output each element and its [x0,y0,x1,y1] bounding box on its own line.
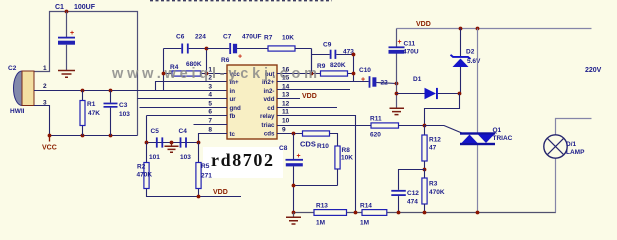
svg-text:+: + [398,39,402,46]
svg-text:Q1: Q1 [493,127,502,134]
resistor R7 [264,35,312,74]
svg-text:22: 22 [381,80,389,87]
svg-text:R14: R14 [360,203,372,210]
svg-text:470U: 470U [403,49,419,56]
svg-text:+: + [361,77,365,84]
svg-text:47: 47 [429,145,437,152]
svg-text:C10: C10 [359,67,371,74]
wire R4/C6 left vertical [163,49,165,91]
wire C6/C7 junction vertical [206,49,208,74]
triac Q1 [425,29,513,213]
wire IC pin5 row [140,107,228,109]
svg-text:HWII: HWII [10,108,25,115]
wire IC pin16 out row [277,73,354,75]
svg-text:relay: relay [260,113,275,120]
svg-text:820K: 820K [330,62,346,69]
capacitor C11 [389,29,419,93]
svg-text:R6: R6 [221,57,230,64]
svg-text:rd8702: rd8702 [211,150,275,170]
resistor R13 [314,203,347,227]
svg-text:CDS: CDS [300,140,316,149]
wire IC pin9 row [277,134,338,147]
wire IC pin2 branch [156,82,228,91]
wire IC pin4 from VCC vertical [138,98,228,100]
sensor C2 HWII [8,65,47,115]
svg-text:1M: 1M [316,220,325,227]
svg-text:7: 7 [208,118,212,125]
svg-text:TRIAC: TRIAC [493,135,513,142]
capacitor C12 [391,170,424,213]
svg-text:R13: R13 [316,203,328,210]
svg-text:C2: C2 [8,65,17,72]
svg-text:10K: 10K [282,35,294,42]
resistor R2 [137,143,242,197]
wire IC pin1 row [164,73,228,75]
capacitor C1 [55,4,96,71]
wire D1/D2 node to R12 [425,94,460,126]
svg-text:103: 103 [180,154,191,161]
svg-text:LAMP: LAMP [566,149,585,156]
pin numbers right [282,67,290,134]
svg-text:5: 5 [208,101,212,108]
node R1 bottom [81,134,85,138]
resistor R5 [196,143,201,197]
svg-text:VCC: VCC [42,145,57,152]
wire C9 left vertical [311,49,313,74]
svg-text:R3: R3 [429,181,438,188]
wire IC pin6 row [147,116,228,143]
svg-text:R7: R7 [264,35,273,42]
capacitor C4 [179,128,192,161]
svg-text:triac: triac [261,122,275,129]
svg-text:VDD: VDD [416,21,431,28]
svg-text:470K: 470K [429,189,445,196]
ground (bottom) [286,213,301,225]
svg-text:R1: R1 [87,101,96,108]
capacitor C7 [207,34,269,61]
svg-text:R5: R5 [201,163,210,170]
zener D2 [451,29,482,94]
svg-text:1: 1 [43,65,47,72]
svg-text:101: 101 [149,154,160,161]
wire C5/C4 row [147,142,199,144]
svg-text:D/1: D/1 [566,141,577,148]
diode D1 [397,76,460,99]
capacitor C3 [104,91,131,136]
wire VCC bottom rail [50,135,138,137]
svg-text:in: in [230,88,236,95]
wire IC pin13 stub VDD [277,98,300,100]
top edge cropped text remnant [150,0,332,2]
svg-text:474: 474 [407,199,418,206]
node R4 right [205,72,209,76]
wire pin10 row through R11 to gate node [277,125,425,127]
svg-text:C1: C1 [55,4,64,11]
wire sensor pin3 to VCC rail [34,106,50,136]
capacitor C10 [359,67,397,88]
svg-text:D2: D2 [466,49,475,56]
wire C8/R8 bottom [294,185,338,187]
svg-text:11: 11 [282,109,289,116]
svg-text:vdd: vdd [263,96,274,103]
white patch behind rd8702 [203,147,283,178]
svg-text:+: + [238,54,242,61]
svg-text:9: 9 [282,127,286,134]
svg-text:C6: C6 [176,34,185,41]
wire IC pin12 row [277,107,337,109]
svg-text:620: 620 [370,132,381,139]
wire VDD top rail [397,28,592,30]
svg-text:6: 6 [208,109,212,116]
svg-text:R12: R12 [429,137,441,144]
wire bottom rail [294,212,557,214]
resistor R4 [170,61,202,76]
svg-text:271: 271 [201,173,212,180]
wire C9 right vertical [353,55,355,82]
svg-text:2: 2 [43,83,47,90]
wire IC pin11 row and vertical [277,116,356,213]
node R1 top [81,89,85,93]
svg-text:+: + [297,153,301,160]
svg-text:VDD: VDD [213,189,228,196]
capacitor C5 [149,128,163,161]
node C3 top [109,89,113,93]
svg-text:R10: R10 [317,143,329,150]
svg-text:tc: tc [230,131,236,138]
wire IC pin8 tc branch [199,134,228,143]
svg-text:1M: 1M [360,220,369,227]
svg-text:103: 103 [119,111,130,118]
svg-text:224: 224 [195,34,206,41]
svg-text:12: 12 [282,101,290,108]
wire VCC top rail [34,12,138,136]
svg-text:470K: 470K [137,172,153,179]
svg-text:C3: C3 [119,102,128,109]
node C3 bottom [109,134,113,138]
svg-text:47K: 47K [88,110,100,117]
ground (C1) [58,71,75,78]
svg-text:VDD: VDD [302,93,317,100]
svg-text:C5: C5 [151,128,160,135]
svg-text:C8: C8 [279,145,288,152]
ground (C5/C4) [165,143,179,153]
svg-text:8: 8 [208,127,212,134]
svg-text:cd: cd [267,105,274,112]
wire IC pin7 stub [194,124,228,126]
svg-text:ur: ur [230,96,237,103]
svg-text:www.weiql-yckj.com: www.weiql-yckj.com [111,66,321,82]
node R4 left [162,72,166,76]
svg-text:220V: 220V [585,67,602,74]
ground (C11) [390,93,405,115]
svg-text:470UF: 470UF [242,34,262,41]
svg-text:D1: D1 [413,76,422,83]
wire IC pin15 row [277,81,369,83]
svg-text:10: 10 [282,118,290,125]
svg-text:5.6V: 5.6V [467,58,481,65]
resistor R11 [370,116,399,139]
svg-text:in2-: in2- [263,88,274,95]
capacitor C6 [164,34,207,54]
resistor R1 [80,91,100,136]
capacitor C8 [279,134,303,213]
resistor R14 [360,203,387,227]
svg-text:10K: 10K [341,155,353,162]
wire IC pin14 row [277,89,350,91]
svg-text:13: 13 [282,92,290,99]
svg-text:100UF: 100UF [74,4,96,11]
node R5 bottom VDD [197,195,201,199]
capacitor C9 [312,42,355,59]
svg-text:C12: C12 [407,190,419,197]
svg-text:C4: C4 [179,128,188,135]
node VCC [48,134,52,138]
resistor R8 [335,146,353,186]
svg-text:R11: R11 [370,116,382,123]
wire sensor pin2 to IC pin3 [34,90,227,92]
lamp D/1 [544,119,592,213]
pin numbers left [208,67,212,134]
svg-text:C9: C9 [323,42,332,49]
svg-text:C11: C11 [404,41,416,48]
node C1 top junction [65,10,69,14]
resistor R10 (CDS) [300,131,330,150]
svg-text:cds: cds [264,131,275,138]
svg-text:4: 4 [208,92,212,99]
IC U1 rd8702 [221,57,277,139]
resistor R3 [422,170,445,213]
resistor R9 [317,62,348,76]
svg-text:gnd: gnd [230,105,242,112]
svg-text:fb: fb [230,113,236,120]
svg-text:+: + [70,30,74,37]
svg-text:3: 3 [208,84,212,91]
svg-text:R2: R2 [137,164,146,171]
svg-text:R8: R8 [342,147,351,154]
resistor R12 [422,126,441,170]
svg-text:C7: C7 [223,34,232,41]
